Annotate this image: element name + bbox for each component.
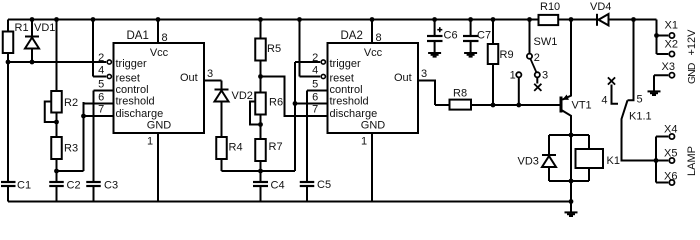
svg-text:VT1: VT1 (572, 100, 592, 112)
op-amp U DA1 timer box (114, 43, 205, 133)
resistor R4 (216, 137, 227, 159)
wire VD3 branch (548, 135, 550, 181)
switch SW1 contact 1 (516, 72, 521, 77)
svg-text:discharge: discharge (330, 108, 378, 120)
svg-text:Out: Out (180, 72, 198, 84)
svg-text:R7: R7 (269, 141, 283, 153)
capacitor C6 plates (427, 36, 443, 41)
wire DA1 pin5 control to C3 (94, 91, 114, 202)
svg-text:C3: C3 (104, 180, 118, 192)
svg-text:1: 1 (147, 136, 153, 148)
svg-text:3: 3 (207, 68, 213, 80)
junction dots rail right (569, 17, 636, 22)
capacitor C3 (86, 182, 101, 186)
svg-text:7: 7 (312, 104, 318, 116)
resistor R3 (51, 137, 62, 159)
svg-text:LAMP: LAMP (686, 146, 698, 176)
svg-text:treshold: treshold (116, 96, 155, 108)
wire R6 wiper tap (250, 102, 261, 125)
svg-text:4: 4 (312, 65, 318, 77)
svg-text:K1.1: K1.1 (629, 111, 652, 123)
wire C7 branch (470, 20, 472, 53)
wire DA1 reset from rail (93, 20, 106, 77)
junction node C2 (54, 114, 86, 174)
pin bubble DA1 pin2 (107, 60, 111, 64)
wire DA1 pin6 treshold (84, 103, 114, 105)
wire X4/X5/X6 bus (656, 137, 668, 183)
terminal X4 (669, 134, 674, 139)
wire node up to DA2 pin2/pin6 (295, 62, 320, 171)
wire SW1 from rail (529, 20, 531, 54)
wire R2/R3/C2 column (56, 20, 58, 202)
wire SW1 contact3 stub (536, 78, 538, 84)
wire DA1 pin1 GND (157, 133, 159, 202)
junction R2 bottom (54, 120, 59, 125)
svg-text:R1: R1 (15, 22, 29, 34)
svg-text:2: 2 (312, 52, 318, 64)
diode VD2 (215, 90, 229, 102)
wire DA1 pin7 discharge (84, 115, 114, 117)
junction pin8 DA1 (156, 17, 161, 22)
wire DA1 out to VD2 (204, 81, 222, 138)
capacitor C5 (300, 182, 315, 186)
svg-text:X2: X2 (665, 39, 678, 51)
relay K1 coil (576, 149, 604, 168)
wire relay loop top (549, 134, 589, 136)
resistor R9 (488, 44, 499, 64)
wire R9 branch (492, 20, 494, 106)
svg-text:VD4: VD4 (590, 1, 611, 13)
terminal X6 (669, 180, 674, 185)
junction pin8 DA2 (370, 17, 375, 22)
svg-text:C5: C5 (317, 179, 331, 191)
svg-text:SW1: SW1 (534, 36, 558, 48)
diode VD4 (597, 14, 609, 26)
svg-text:C4: C4 (271, 180, 285, 192)
svg-text:3: 3 (421, 68, 427, 80)
pin bubble DA1 pin4 (107, 74, 111, 78)
terminal X3 (669, 73, 674, 78)
resistor R1 (3, 32, 14, 54)
junction DA2 reset rail (297, 17, 302, 22)
svg-text:Vcc: Vcc (150, 47, 169, 59)
svg-text:5: 5 (312, 79, 318, 91)
svg-text:6: 6 (98, 91, 104, 103)
svg-text:4: 4 (601, 95, 607, 107)
svg-text:VD2: VD2 (232, 90, 253, 102)
wire X3 to ground (654, 75, 668, 91)
junction dots R5 col (258, 17, 263, 173)
svg-text:6: 6 (312, 91, 318, 103)
svg-text:X3: X3 (662, 61, 675, 73)
svg-text:C6: C6 (444, 30, 458, 42)
svg-text:7: 7 (98, 104, 104, 116)
junction dots C6 C7 R9 (432, 17, 495, 107)
resistor R7 (255, 139, 266, 161)
ground below C6 (428, 53, 441, 57)
junction reset rail (91, 17, 96, 22)
switch SW1 contact 3 (535, 72, 540, 77)
svg-text:R9: R9 (500, 49, 514, 61)
capacitor C1 (1, 182, 16, 186)
wire DA2 pin5 control to C5 (307, 91, 328, 202)
resistor R10 (539, 15, 559, 25)
wire VD1 branch (31, 20, 33, 63)
svg-text:reset: reset (116, 73, 140, 85)
svg-text:2: 2 (98, 52, 104, 64)
svg-text:Vcc: Vcc (364, 47, 383, 59)
op-amp U DA2 timer box (328, 43, 419, 133)
wire SW1 contact1 down (518, 78, 520, 105)
svg-text:3: 3 (542, 70, 548, 82)
polarity plus C6 (437, 27, 442, 32)
resistor R2 variable (51, 91, 62, 113)
capacitor C7 plates (463, 36, 479, 41)
wire DA2 pin1 GND (371, 133, 373, 202)
ground stub main (570, 202, 572, 212)
resistor R5 (255, 39, 266, 61)
wire K1.1 terminal 5 and blade (622, 20, 657, 161)
svg-text:GND: GND (686, 62, 698, 84)
wire ground bottom rail (8, 201, 571, 203)
wire collector node to ground (570, 135, 572, 202)
svg-text:R10: R10 (540, 1, 560, 13)
x-mark K1.1 terminal 4 (608, 77, 615, 84)
svg-text:8: 8 (376, 32, 382, 44)
pin bubble DA2 pin2 (321, 60, 325, 64)
svg-text:X6: X6 (664, 171, 677, 183)
wire R4 bottom to node (222, 159, 296, 171)
svg-text:DA2: DA2 (341, 30, 363, 42)
svg-text:reset: reset (330, 73, 354, 85)
terminal X2 (669, 51, 674, 56)
wire DA2 pin6 treshold (295, 103, 328, 105)
svg-text:5: 5 (98, 79, 104, 91)
svg-text:discharge: discharge (116, 108, 164, 120)
svg-text:X1: X1 (665, 20, 678, 32)
svg-text:Out: Out (394, 72, 412, 84)
svg-text:control: control (116, 84, 149, 96)
capacitor C4 (253, 182, 268, 186)
wire DA2 reset from rail (300, 20, 321, 77)
ground below C7 (464, 53, 477, 57)
svg-text:trigger: trigger (330, 58, 362, 70)
svg-text:K1: K1 (607, 155, 620, 167)
svg-text:GND: GND (361, 120, 386, 132)
resistor R6 variable (255, 93, 266, 115)
svg-text:C7: C7 (477, 30, 491, 42)
ground symbol main (565, 212, 578, 216)
svg-text:VD1: VD1 (34, 22, 55, 34)
terminal X5 (669, 158, 674, 163)
capacitor C2 (49, 182, 64, 186)
svg-text:X4: X4 (664, 124, 677, 136)
switch SW1 lever (530, 59, 536, 73)
wire left column R1/C1 (7, 20, 9, 202)
switch SW1 contact 2 (527, 54, 532, 59)
svg-text:R6: R6 (269, 97, 283, 109)
svg-text:2: 2 (534, 52, 540, 64)
x-mark below SW1 contact 3 (534, 84, 541, 91)
transistor VT1 base bar (560, 97, 563, 113)
terminal X1 (669, 33, 674, 38)
svg-text:1: 1 (361, 136, 367, 148)
ground symbol X3 (648, 91, 661, 95)
junction X1 stub (654, 33, 659, 38)
junction X5 stub (654, 158, 659, 163)
svg-text:control: control (330, 84, 363, 96)
svg-text:R3: R3 (64, 143, 78, 155)
junction dots relay (569, 133, 574, 204)
wire relay loop bottom (549, 180, 589, 182)
svg-text:R8: R8 (453, 88, 467, 100)
svg-text:R2: R2 (64, 97, 78, 109)
wire +12V top rail (8, 19, 657, 21)
wire C6 branch (434, 20, 436, 53)
wire R2 wiper tap (45, 102, 57, 123)
wire R5/R6 node to DA2 pin7 (261, 77, 328, 117)
svg-text:+12V: +12V (686, 29, 698, 56)
svg-text:X5: X5 (664, 148, 677, 160)
wire trigger node line (8, 61, 106, 63)
svg-text:4: 4 (98, 65, 104, 77)
svg-text:8: 8 (162, 32, 168, 44)
wire VT1 emitter (562, 20, 571, 100)
wire base line (435, 104, 560, 106)
junction DA2 pin6 (293, 101, 298, 106)
svg-text:C2: C2 (67, 180, 81, 192)
transistor VT1 emitter arrow (562, 95, 569, 100)
svg-text:5: 5 (637, 94, 643, 106)
junction SW1 (516, 17, 532, 107)
svg-text:R5: R5 (267, 43, 281, 55)
wire K1.1 terminal 4 (612, 85, 619, 104)
wire VT1 collector (562, 110, 571, 135)
wire R3-C2 node to pins 6,7 (57, 102, 84, 171)
svg-text:treshold: treshold (330, 96, 369, 108)
pin bubble DA2 pin4 (321, 74, 325, 78)
svg-text:R4: R4 (229, 142, 243, 154)
diode VD3 (542, 155, 556, 167)
wire DA2 pin8 Vcc (371, 20, 373, 44)
svg-text:1: 1 (510, 70, 516, 82)
svg-text:VD3: VD3 (518, 156, 539, 168)
wire R5/R6/R7 column (260, 20, 262, 202)
diode VD1 (25, 37, 39, 49)
wire X1/X2 bus (657, 20, 669, 55)
wire DA1 pin8 Vcc (157, 20, 159, 44)
resistor R8 (450, 100, 472, 110)
svg-text:GND: GND (147, 120, 172, 132)
wire K1 coil leads (588, 135, 590, 181)
wire DA2 out to R8 (418, 81, 435, 106)
junction dots left (6, 17, 59, 64)
svg-text:trigger: trigger (116, 58, 148, 70)
svg-text:DA1: DA1 (127, 30, 149, 42)
svg-text:C1: C1 (17, 180, 31, 192)
